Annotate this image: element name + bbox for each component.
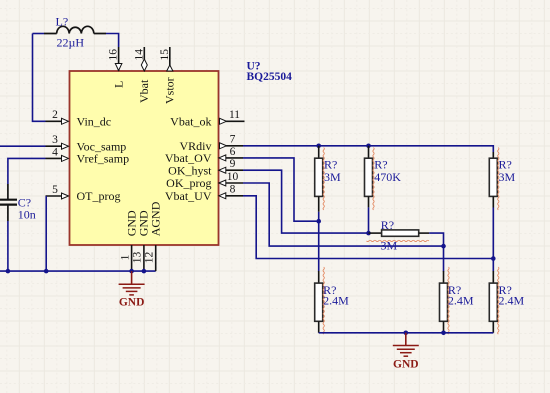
error squiggle R2 <box>373 148 374 210</box>
junction: pin5 net/rail <box>44 269 49 274</box>
error squiggle R4 <box>367 240 429 241</box>
wire: pin 3 net (Voc_samp) <box>0 145 46 147</box>
error squiggle R3 <box>498 148 499 210</box>
svg-text:AGND: AGND <box>148 201 162 236</box>
svg-text:1: 1 <box>119 254 131 260</box>
pin 10 OK_prog (right) <box>219 180 243 186</box>
junction: cap/rail <box>6 269 11 274</box>
svg-text:GND: GND <box>119 297 145 309</box>
inductor L? <box>44 26 106 33</box>
svg-text:14: 14 <box>133 49 145 61</box>
pin 2 Vin_dc (left) <box>46 118 69 124</box>
error squiggle R5 <box>323 267 324 334</box>
svg-text:L: L <box>111 81 125 88</box>
svg-text:9: 9 <box>230 158 236 170</box>
wire: pin 4 net to capacitor top <box>8 158 46 184</box>
junction: R4 vertical / pin10 net <box>441 244 446 249</box>
ground symbol GND (right) <box>393 333 419 356</box>
error squiggle R7 <box>498 267 499 334</box>
junction: pin13/rail <box>142 269 147 274</box>
wire: VRdiv rail (pin7 to R3 top) <box>243 146 493 152</box>
pin 15 Vstor (top) <box>167 47 173 71</box>
junction: R2 bottom / pin9 net / R4 left <box>366 231 371 236</box>
svg-text:470K: 470K <box>374 170 401 184</box>
wire: R2 bottom to junction <box>368 207 370 233</box>
pin 8 Vbat_UV (right) <box>219 193 243 199</box>
wire: capacitor bottom to ground rail <box>7 221 9 271</box>
svg-text:R?: R? <box>381 218 394 232</box>
svg-text:15: 15 <box>159 49 171 61</box>
resistor R4 3M (horizontal) <box>369 230 430 236</box>
svg-text:7: 7 <box>230 134 236 146</box>
pin 7 VRdiv (right) <box>220 143 244 149</box>
svg-text:10n: 10n <box>18 208 36 222</box>
svg-text:2.4M: 2.4M <box>448 294 474 308</box>
wire: pin 6 net to R1 bottom <box>243 158 317 221</box>
resistor R1 3M <box>315 146 323 212</box>
pin 16 L (top) <box>115 47 122 71</box>
svg-text:3M: 3M <box>499 170 516 184</box>
svg-text:Vbat_UV: Vbat_UV <box>165 189 212 203</box>
junction: pin1/rail <box>129 269 134 274</box>
wire: pin 8 net to R3 bottom vertical <box>243 196 493 259</box>
wire: inductor right to pin16 <box>106 34 119 48</box>
pin 1 GND (bottom) <box>131 245 133 271</box>
pin 13 GND (bottom) <box>143 245 145 271</box>
svg-text:22µH: 22µH <box>57 36 85 50</box>
svg-text:3M: 3M <box>324 170 341 184</box>
svg-text:Vin_dc: Vin_dc <box>77 115 112 129</box>
svg-text:13: 13 <box>132 252 144 264</box>
svg-text:8: 8 <box>230 184 236 196</box>
wire: bottom-left ground rail <box>0 270 156 272</box>
svg-text:2: 2 <box>52 109 58 121</box>
wire: pin 5 net vertical <box>45 196 47 271</box>
pin 14 Vbat (top) <box>141 47 147 71</box>
svg-text:5: 5 <box>52 184 58 196</box>
svg-text:Vref_samp: Vref_samp <box>77 152 130 166</box>
svg-text:Vstor: Vstor <box>163 77 177 104</box>
junction: rail/R1 <box>316 144 321 149</box>
svg-text:3: 3 <box>52 134 58 146</box>
wire: inductor left net vertical (Vin_dc) <box>33 34 46 122</box>
pin 4 Vref_samp (left) <box>46 155 69 161</box>
wire: R4 right to vertical down <box>429 233 443 246</box>
IC U? BQ25504 body <box>70 71 219 245</box>
svg-text:OT_prog: OT_prog <box>77 189 121 203</box>
svg-text:12: 12 <box>144 252 156 264</box>
wire: bottom ground rail (right) <box>319 332 494 334</box>
svg-text:3M: 3M <box>381 239 398 253</box>
junction: R3 vertical / pin8 net <box>491 256 496 261</box>
wire: pin 10 net to R4 right vertical <box>243 183 444 246</box>
resistor R6 2.4M <box>440 271 448 333</box>
resistor R7 2.4M <box>489 271 497 333</box>
svg-text:Vbat: Vbat <box>137 79 151 103</box>
svg-text:BQ25504: BQ25504 <box>247 71 293 83</box>
svg-text:L?: L? <box>56 15 69 29</box>
resistor R5 2.4M <box>315 271 323 333</box>
pin 6 Vbat_OV (right) <box>219 155 243 161</box>
svg-text:11: 11 <box>229 109 240 121</box>
ground symbol GND (left) <box>119 271 145 295</box>
error squiggle R1 <box>323 148 324 210</box>
error squiggle R6 <box>448 267 449 334</box>
wire: junction down to R6 <box>443 246 445 271</box>
pin 12 AGND (bottom) <box>155 245 157 271</box>
wire: junction down to R7 <box>492 259 494 272</box>
junction: gnd stem / rail <box>404 331 409 336</box>
pin 9 OK_hyst (right) <box>219 167 243 173</box>
svg-text:GND: GND <box>393 358 419 370</box>
wire: R3 bottom vertical to pin8 net junction <box>492 208 494 259</box>
wire: junction down to R5 <box>318 221 320 271</box>
svg-text:6: 6 <box>230 146 236 158</box>
svg-text:10: 10 <box>227 171 239 183</box>
pin 3 Voc_samp (left) <box>46 143 69 149</box>
capacitor C? <box>0 184 17 221</box>
pin 11 Vbat_ok (right) <box>220 118 245 124</box>
svg-text:16: 16 <box>108 49 120 61</box>
resistor R2 470K <box>365 146 373 208</box>
svg-text:Vbat_ok: Vbat_ok <box>170 115 211 129</box>
junction: rail/R2 <box>366 144 371 149</box>
svg-text:4: 4 <box>52 146 58 158</box>
wire: R1 bottom to junction <box>318 212 320 221</box>
svg-text:2.4M: 2.4M <box>323 294 349 308</box>
junction: R6 bottom / rail <box>441 331 446 336</box>
wire: pin 9 net to R2 bottom <box>243 170 367 233</box>
svg-text:2.4M: 2.4M <box>499 294 525 308</box>
pin 5 OT_prog (left) <box>46 193 69 199</box>
wire: inductor left lead attach <box>33 33 45 35</box>
junction: R1 bottom / pin6 net <box>316 219 321 224</box>
resistor R3 3M <box>489 152 497 208</box>
